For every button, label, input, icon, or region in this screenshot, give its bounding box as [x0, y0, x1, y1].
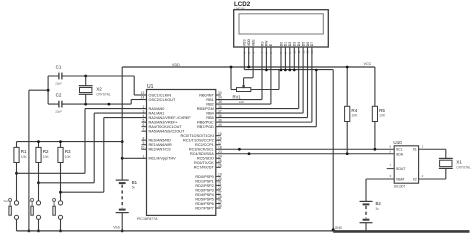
svg-text:VBAT: VBAT	[396, 177, 405, 181]
svg-text:X2: X2	[413, 177, 417, 181]
svg-text:U1: U1	[147, 84, 154, 90]
svg-text:RC7/RX/DT: RC7/RX/DT	[194, 166, 215, 170]
svg-text:RV1: RV1	[233, 94, 242, 99]
svg-text:RA2/AN2/VREF-/CVREF: RA2/AN2/VREF-/CVREF	[149, 116, 192, 120]
svg-text:10K: 10K	[351, 114, 358, 118]
svg-text:PIC16F877A: PIC16F877A	[137, 217, 158, 221]
svg-text:X1: X1	[413, 148, 417, 152]
svg-text:R2: R2	[43, 149, 49, 154]
svg-text:RW: RW	[265, 40, 269, 46]
svg-text:VDD: VDD	[247, 38, 251, 46]
svg-text:RD4/PSP4: RD4/PSP4	[195, 193, 213, 197]
svg-text:MCLR/Vpp/THV: MCLR/Vpp/THV	[149, 157, 177, 161]
svg-text:-: -	[52, 199, 53, 203]
svg-text:RE2/AN7/CS: RE2/AN7/CS	[149, 148, 172, 152]
svg-text:X1: X1	[456, 159, 462, 164]
svg-text:U10: U10	[393, 140, 402, 145]
svg-text:VSS: VSS	[113, 225, 120, 229]
svg-text:RB4: RB4	[206, 111, 213, 115]
svg-text:B1: B1	[132, 180, 138, 185]
svg-text:VSS: VSS	[243, 39, 247, 47]
svg-text:3v: 3v	[376, 207, 380, 211]
svg-text:RC2/CCP1: RC2/CCP1	[195, 143, 214, 147]
svg-text:RC5/SDO: RC5/SDO	[197, 157, 214, 161]
svg-text:B2: B2	[376, 201, 382, 206]
svg-text:10K: 10K	[239, 100, 244, 104]
svg-text:R4: R4	[351, 108, 357, 113]
svg-text:D7: D7	[310, 42, 314, 47]
svg-text:VCC: VCC	[364, 62, 372, 66]
svg-text:D6: D6	[306, 42, 310, 47]
svg-text:RC0/T1OSO/T1CKI: RC0/T1OSO/T1CKI	[180, 134, 213, 138]
svg-text:RD6/PSP6: RD6/PSP6	[195, 202, 213, 206]
svg-text:RA4/T0CKI/C1OUT: RA4/T0CKI/C1OUT	[149, 125, 183, 129]
svg-text:RD3/PSP3: RD3/PSP3	[195, 188, 213, 192]
svg-text:SDA: SDA	[396, 152, 404, 156]
svg-text:C2: C2	[56, 93, 62, 98]
svg-text:RA5/AN4/SS/C2OUT: RA5/AN4/SS/C2OUT	[149, 130, 186, 134]
svg-text:RC4/SDI/SDA: RC4/SDI/SDA	[190, 152, 214, 156]
svg-text:RB3/PGM: RB3/PGM	[197, 107, 214, 111]
svg-text:10K: 10K	[379, 114, 386, 118]
svg-text:22pF: 22pF	[55, 81, 62, 85]
svg-text:10K: 10K	[43, 155, 50, 159]
svg-text:RA1/AN1: RA1/AN1	[149, 111, 165, 115]
svg-text:OSC1/CLKIN: OSC1/CLKIN	[149, 93, 172, 97]
svg-text:RE1/AN6/WR: RE1/AN6/WR	[149, 143, 172, 147]
svg-text:+: +	[29, 199, 31, 203]
svg-text:CRYSTAL: CRYSTAL	[456, 165, 471, 169]
svg-text:RD1/PSP1: RD1/PSP1	[195, 179, 213, 183]
svg-text:RD5/PSP5: RD5/PSP5	[195, 197, 213, 201]
svg-text:Set: Set	[3, 199, 8, 203]
svg-text:RB1: RB1	[206, 98, 213, 102]
svg-text:D4: D4	[297, 42, 301, 47]
svg-text:RE0/AN5/RD: RE0/AN5/RD	[149, 139, 172, 143]
svg-text:GND: GND	[335, 226, 343, 230]
svg-text:RA0/AN0: RA0/AN0	[149, 107, 165, 111]
svg-text:VEE: VEE	[251, 39, 255, 47]
svg-text:RC1/T1OSI/CCP2: RC1/T1OSI/CCP2	[183, 139, 214, 143]
svg-text:RD0/PSP0: RD0/PSP0	[195, 175, 213, 179]
svg-text:D5: D5	[301, 42, 305, 47]
svg-text:R1: R1	[21, 149, 27, 154]
svg-text:10K: 10K	[65, 155, 72, 159]
svg-text:RB6/PGC: RB6/PGC	[197, 121, 214, 125]
svg-text:5v: 5v	[132, 186, 136, 190]
svg-text:RA3/AN3/VREF+: RA3/AN3/VREF+	[149, 121, 179, 125]
svg-text:RS: RS	[260, 41, 264, 47]
svg-text:RB5: RB5	[206, 116, 213, 120]
svg-text:RC3/SCK/SCL: RC3/SCK/SCL	[189, 148, 214, 152]
svg-text:OSC2/CLKOUT: OSC2/CLKOUT	[149, 98, 176, 102]
svg-text:SCL: SCL	[396, 148, 403, 152]
svg-text:RB7/PGD: RB7/PGD	[197, 125, 214, 129]
svg-text:D1: D1	[284, 42, 288, 47]
svg-text:D3: D3	[293, 42, 297, 47]
svg-text:LM016L: LM016L	[235, 7, 246, 11]
svg-text:22pF: 22pF	[55, 109, 62, 113]
svg-text:D0: D0	[279, 42, 283, 47]
svg-text:CRYSTAL: CRYSTAL	[96, 93, 111, 97]
svg-text:R3: R3	[65, 149, 71, 154]
svg-text:RC6/TX/CK: RC6/TX/CK	[194, 161, 214, 165]
svg-text:RB2: RB2	[206, 102, 213, 106]
svg-text:SOUT: SOUT	[396, 167, 405, 171]
svg-text:RD7/PSP7: RD7/PSP7	[195, 206, 213, 210]
svg-text:RB0/INT: RB0/INT	[199, 93, 214, 97]
svg-text:10K: 10K	[21, 155, 28, 159]
svg-text:X2: X2	[96, 87, 102, 92]
svg-text:RD2/PSP2: RD2/PSP2	[195, 184, 213, 188]
svg-text:VDD: VDD	[172, 63, 180, 67]
svg-text:R5: R5	[379, 108, 385, 113]
svg-text:C1: C1	[56, 65, 62, 70]
svg-text:D2: D2	[288, 42, 292, 47]
svg-text:DS1307: DS1307	[394, 185, 406, 189]
